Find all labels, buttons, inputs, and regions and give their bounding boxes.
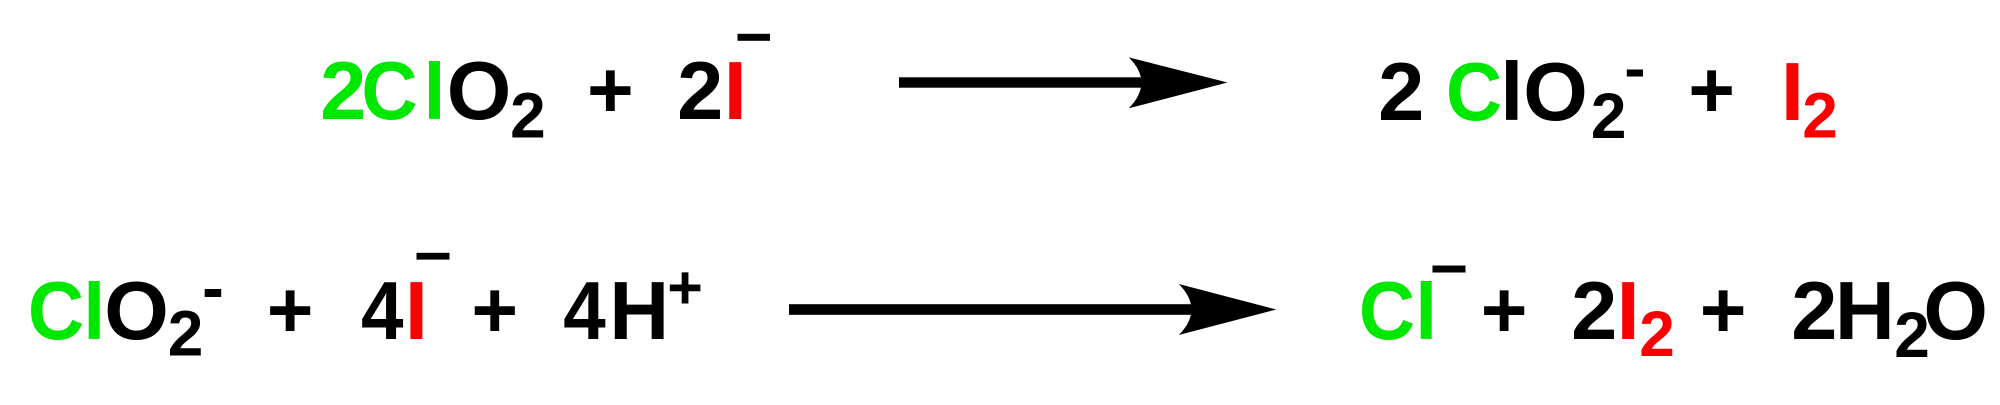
svg-text:+: +: [587, 46, 634, 135]
svg-text:4: 4: [563, 264, 606, 357]
svg-text:+: +: [1700, 266, 1747, 355]
svg-text:+: +: [471, 266, 518, 355]
svg-text:2: 2: [510, 80, 546, 152]
svg-text:H: H: [609, 264, 669, 357]
svg-text:2: 2: [320, 44, 366, 137]
svg-text:2: 2: [1791, 264, 1837, 357]
svg-text:C: C: [1446, 45, 1502, 138]
svg-text:+: +: [667, 254, 703, 322]
svg-text:+: +: [1481, 266, 1528, 355]
svg-text:2: 2: [677, 44, 723, 137]
svg-text:O: O: [104, 264, 169, 357]
svg-text:2: 2: [168, 298, 204, 370]
svg-text:2: 2: [1378, 45, 1424, 138]
svg-text:2: 2: [1639, 298, 1675, 370]
svg-text:I: I: [724, 44, 747, 137]
svg-text:2: 2: [1591, 80, 1627, 152]
reaction arrow 1: [899, 77, 1150, 87]
svg-text:+: +: [267, 266, 314, 355]
reaction arrow 2: [789, 304, 1209, 315]
svg-text:C: C: [361, 44, 417, 137]
svg-text:lO: lO: [1500, 45, 1588, 138]
svg-text:2: 2: [1802, 80, 1838, 152]
svg-text:H: H: [1835, 264, 1895, 357]
svg-text:I: I: [1781, 45, 1804, 138]
svg-text:I: I: [405, 264, 428, 357]
svg-text:C: C: [28, 264, 84, 357]
svg-text:l: l: [83, 267, 105, 356]
svg-text:O: O: [1923, 264, 1988, 357]
svg-text:O: O: [447, 44, 512, 137]
svg-text:4: 4: [361, 264, 404, 357]
svg-text:I: I: [1617, 264, 1640, 357]
svg-text:+: +: [1688, 46, 1735, 135]
svg-text:l: l: [423, 47, 445, 136]
svg-text:l: l: [1415, 267, 1437, 356]
svg-text:2: 2: [1571, 264, 1617, 357]
svg-text:C: C: [1359, 264, 1415, 357]
